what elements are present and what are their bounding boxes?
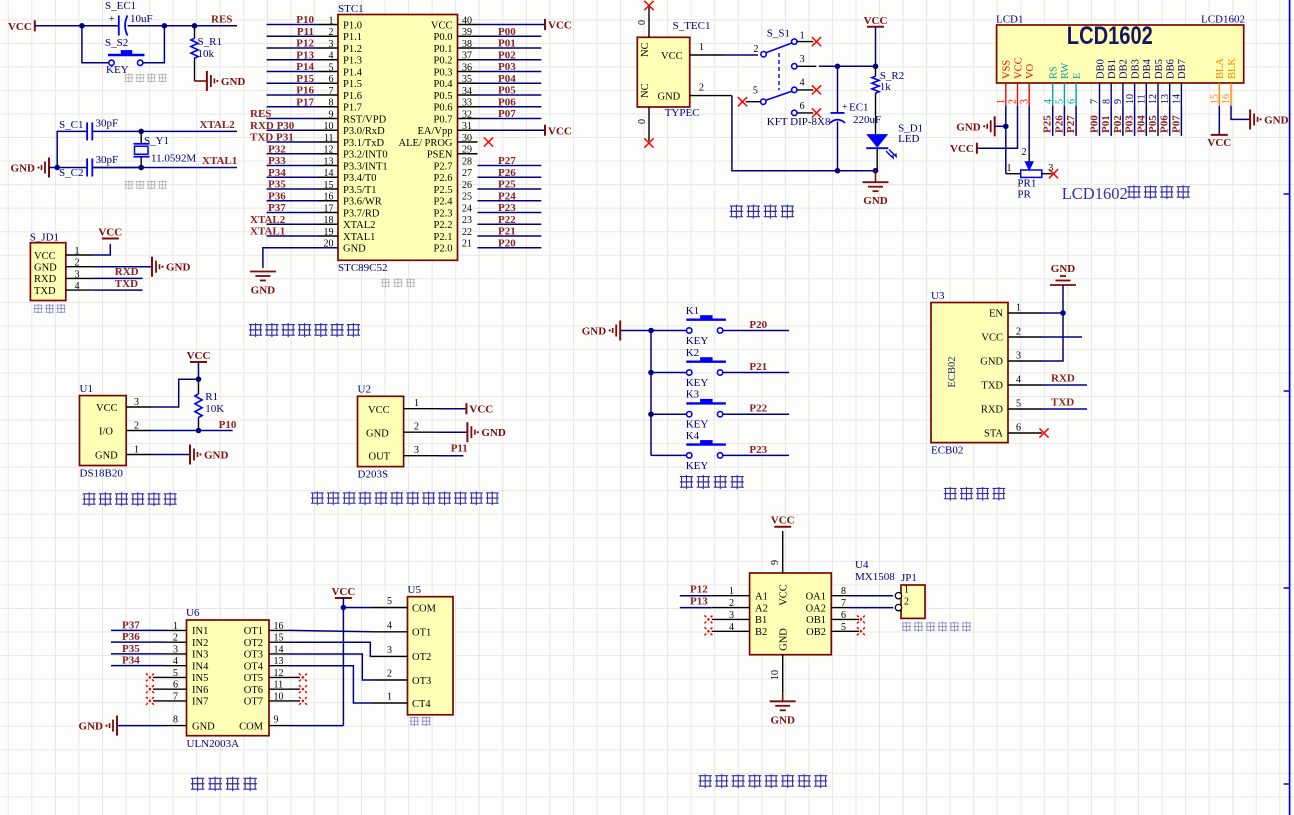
svg-text:VCC: VCC <box>469 404 493 416</box>
no-ERC marker STA <box>1039 428 1048 437</box>
title power circuit <box>730 205 743 219</box>
ground (U4) <box>770 693 796 726</box>
pins U6 <box>167 621 290 733</box>
svg-text:DB2: DB2 <box>1119 59 1130 79</box>
ground <box>770 700 796 702</box>
wire mcu pin 34 <box>478 94 542 96</box>
svg-text:10K: 10K <box>205 403 224 415</box>
svg-text:6: 6 <box>1016 423 1021 434</box>
sensor U1 DS18B20 <box>80 383 127 480</box>
svg-text:GND: GND <box>1264 114 1289 126</box>
svg-text:R1: R1 <box>205 391 218 403</box>
svg-text:ULN2003A: ULN2003A <box>187 738 240 750</box>
no-ERC marker S_S1 pin5 <box>738 97 747 106</box>
svg-text:15: 15 <box>1210 94 1221 104</box>
svg-text:DB7: DB7 <box>1177 59 1188 79</box>
no-ERC marker B2 <box>705 627 713 635</box>
node junction crystal bottom <box>138 165 144 171</box>
svg-text:IN1: IN1 <box>192 626 208 637</box>
no-ERC marker B1 <box>705 615 713 623</box>
svg-text:VCC: VCC <box>548 125 572 137</box>
wire keys bus <box>650 331 652 456</box>
wire OT3 to U5 <box>289 654 372 680</box>
stub OT6 <box>289 688 300 690</box>
node junction lcd vss <box>1003 124 1009 130</box>
switch K3 KEY <box>686 389 726 431</box>
svg-text:P13: P13 <box>296 49 314 61</box>
svg-text:P37: P37 <box>122 619 140 631</box>
svg-text:TXD: TXD <box>1051 397 1074 409</box>
svg-text:P0.7: P0.7 <box>434 114 453 125</box>
wire U3 RXD <box>1042 408 1087 410</box>
wire mcu pin 32 <box>478 118 542 120</box>
svg-text:P3.4/T0: P3.4/T0 <box>343 173 377 184</box>
wire mcu pin 39 <box>478 35 542 37</box>
svg-text:P36: P36 <box>268 190 286 202</box>
svg-text:P10: P10 <box>296 14 314 26</box>
power port VCC <box>102 238 119 240</box>
svg-text:COM: COM <box>412 603 437 614</box>
svg-text:OT3: OT3 <box>244 650 263 661</box>
node junction EC1 top <box>835 64 841 70</box>
svg-text:P34: P34 <box>122 655 140 667</box>
wire lcd pin 13 <box>1169 106 1171 136</box>
wire XTAL2 net <box>92 130 237 132</box>
no-ERC marker bottom <box>644 138 653 147</box>
svg-text:P1.2: P1.2 <box>343 44 362 55</box>
no-ERC marker IN7 <box>146 697 154 705</box>
wire mcu pin 6 <box>267 82 318 84</box>
svg-text:DS18B20: DS18B20 <box>80 468 124 480</box>
svg-text:P03: P03 <box>498 61 516 73</box>
power port VCC (reset rail) <box>8 20 35 33</box>
svg-text:STC1: STC1 <box>338 3 364 15</box>
title mcu minimal system <box>249 323 262 337</box>
wire lcd VSS to gnd <box>1005 106 1007 174</box>
svg-text:2: 2 <box>699 83 704 94</box>
wire K3 left <box>651 413 687 415</box>
svg-text:I/O: I/O <box>99 426 113 437</box>
svg-text:6: 6 <box>800 101 805 112</box>
wire U6 IN4 <box>111 665 167 667</box>
capacitor S_EC1 10uF <box>105 0 153 36</box>
svg-text:4: 4 <box>75 281 80 292</box>
svg-text:4: 4 <box>1016 375 1021 386</box>
svg-text:25: 25 <box>462 192 472 203</box>
power port VCC <box>335 597 352 599</box>
wire mcu pin 37 <box>478 59 542 61</box>
wire U6 IN2 <box>111 641 167 643</box>
wire K4 left <box>651 454 687 456</box>
svg-text:K1: K1 <box>686 305 699 317</box>
svg-text:RST/VPD: RST/VPD <box>343 114 387 125</box>
wire mcu pin 20 to ground <box>263 248 338 268</box>
svg-text:XTAL2: XTAL2 <box>343 220 375 231</box>
svg-text:NC: NC <box>640 42 651 57</box>
svg-text:VCC: VCC <box>950 143 974 155</box>
svg-text:P0.4: P0.4 <box>434 79 454 90</box>
wire JD1 VCC <box>93 244 110 255</box>
svg-text:GND: GND <box>481 427 506 439</box>
pins U2 <box>404 398 438 456</box>
svg-text:P11: P11 <box>297 26 314 38</box>
power port VCC <box>867 26 884 28</box>
svg-text:KFT DIP-8X8: KFT DIP-8X8 <box>767 116 831 128</box>
svg-text:P02: P02 <box>498 49 516 61</box>
svg-text:STA: STA <box>984 429 1003 440</box>
svg-text:P36: P36 <box>122 631 140 643</box>
wire U1 GND <box>151 454 190 456</box>
wire mcu pin 24 <box>478 212 542 214</box>
svg-text:0: 0 <box>637 119 648 124</box>
power port VCC <box>774 526 791 528</box>
svg-text:P02: P02 <box>1112 115 1124 133</box>
wire gnd to caps <box>49 131 141 167</box>
node junction crystal top <box>138 129 144 135</box>
connector U5 socket <box>408 584 454 715</box>
svg-text:IN6: IN6 <box>192 685 208 696</box>
ground <box>994 116 996 136</box>
wire lcd pin 12 <box>1157 106 1159 136</box>
svg-text:5: 5 <box>387 596 392 607</box>
ground <box>189 445 191 465</box>
svg-text:K2: K2 <box>686 347 699 359</box>
svg-text:XTAL1: XTAL1 <box>202 155 237 167</box>
no-ERC marker OT7 <box>299 697 307 705</box>
svg-text:EC1: EC1 <box>849 102 869 114</box>
svg-text:2: 2 <box>387 669 392 680</box>
svg-text:9: 9 <box>770 560 781 565</box>
svg-text:OT2: OT2 <box>244 638 263 649</box>
wire TEC1 VCC to switch <box>724 54 758 56</box>
svg-text:OT4: OT4 <box>244 661 264 672</box>
svg-text:P2.1: P2.1 <box>434 232 453 243</box>
svg-text:P05: P05 <box>498 85 516 97</box>
svg-text:3: 3 <box>134 397 139 408</box>
svg-text:3: 3 <box>75 269 80 280</box>
wire U2 OUT <box>438 455 463 457</box>
svg-text:P2.5: P2.5 <box>434 185 453 196</box>
power port VCC <box>544 19 546 30</box>
svg-text:P01: P01 <box>1100 115 1112 133</box>
svg-text:IN3: IN3 <box>192 650 208 661</box>
node junction crystal gnd <box>54 165 60 171</box>
wire mcu pin 1 <box>267 24 318 26</box>
node junction R2 top <box>873 64 879 70</box>
svg-text:VO: VO <box>1025 63 1036 79</box>
connector S_JD1 <box>30 232 93 301</box>
node junction stepper VCC <box>341 605 347 611</box>
svg-text:P35: P35 <box>122 643 140 655</box>
svg-text:RXD: RXD <box>34 274 57 285</box>
svg-text:P1.5: P1.5 <box>343 79 362 90</box>
node junction LED bottom <box>873 168 879 174</box>
wire lcd pin 6 <box>1075 106 1077 136</box>
stub IN6 <box>153 688 167 690</box>
wire lcd pin 11 <box>1145 106 1147 136</box>
wire U1 I/O P10 <box>151 430 233 432</box>
svg-text:TXD: TXD <box>981 381 1003 392</box>
svg-text:IN4: IN4 <box>192 661 209 672</box>
svg-text:P35: P35 <box>268 179 286 191</box>
svg-text:VCC: VCC <box>771 515 795 527</box>
svg-text:11: 11 <box>1137 94 1148 104</box>
svg-text:23: 23 <box>462 215 472 226</box>
svg-text:1: 1 <box>414 398 419 409</box>
svg-text:LCD1602: LCD1602 <box>1201 13 1245 25</box>
svg-text:EN: EN <box>989 309 1003 320</box>
svg-text:P2.0: P2.0 <box>434 244 453 255</box>
svg-text:1: 1 <box>699 42 704 53</box>
svg-text:KEY: KEY <box>686 419 709 431</box>
svg-text:KEY: KEY <box>686 460 709 472</box>
svg-text:P25: P25 <box>498 179 516 191</box>
svg-text:GND: GND <box>343 244 366 255</box>
wire vss to pr1 pin1 <box>1006 173 1009 175</box>
sensor U2 D203S <box>358 384 404 481</box>
power port VCC <box>544 125 546 136</box>
pin U4 VCC top <box>770 531 783 573</box>
ground (lcd left) <box>956 116 1006 136</box>
svg-text:P00: P00 <box>498 26 516 38</box>
svg-text:30pF: 30pF <box>96 118 119 130</box>
comment text reset annotation <box>125 74 134 83</box>
svg-text:GND: GND <box>980 357 1003 368</box>
svg-text:GND: GND <box>863 195 888 207</box>
svg-text:0: 0 <box>637 20 648 25</box>
svg-text:P23: P23 <box>749 444 767 456</box>
wire mcu pin 9 <box>267 118 318 120</box>
svg-text:IN5: IN5 <box>192 673 208 684</box>
svg-text:9: 9 <box>274 715 279 726</box>
svg-text:LCD1602: LCD1602 <box>1062 184 1128 203</box>
svg-text:VCC: VCC <box>1013 57 1024 79</box>
svg-text:U5: U5 <box>408 584 422 596</box>
svg-text:P0.3: P0.3 <box>434 67 453 78</box>
wire mcu VCC pin <box>478 129 546 131</box>
svg-text:P2.2: P2.2 <box>434 220 453 231</box>
svg-text:VCC: VCC <box>187 350 211 362</box>
potentiometer PR1 PR <box>1007 147 1054 200</box>
wire K2 right <box>723 372 789 374</box>
svg-text:ECB02: ECB02 <box>931 445 963 457</box>
wire mcu pin 27 <box>478 176 542 178</box>
svg-text:U6: U6 <box>186 607 200 619</box>
no-ERC marker S_S1 pin1 <box>812 37 821 46</box>
svg-text:GND: GND <box>251 285 276 297</box>
wire mcu pin 22 <box>478 235 542 237</box>
no-ERC marker ALE <box>484 137 493 146</box>
svg-text:1: 1 <box>800 31 805 42</box>
connector JP1 <box>895 572 925 618</box>
svg-text:LED: LED <box>898 133 919 145</box>
svg-text:P26: P26 <box>498 167 516 179</box>
svg-text:P22: P22 <box>749 403 767 415</box>
svg-text:ECB02: ECB02 <box>947 357 958 388</box>
switch K1 KEY <box>686 305 726 347</box>
wire K4 right <box>723 454 789 456</box>
wire lcd pin 7 <box>1099 106 1101 136</box>
no-ERC marker top <box>644 1 653 10</box>
svg-text:A2: A2 <box>755 603 768 614</box>
svg-text:P27: P27 <box>498 155 516 167</box>
wire mcu pin 19 <box>267 235 318 237</box>
svg-text:PSEN: PSEN <box>427 150 453 161</box>
svg-text:4: 4 <box>800 78 805 89</box>
svg-text:GND: GND <box>582 326 607 338</box>
switch K4 KEY <box>686 430 726 472</box>
wire keys gnd <box>620 330 651 332</box>
pin S_TEC1 top <box>637 7 649 37</box>
svg-text:VSS: VSS <box>1002 60 1013 79</box>
svg-text:+: + <box>109 14 115 25</box>
crystal S_Y1 11.0592M <box>134 131 197 167</box>
wire RXD <box>93 277 142 279</box>
svg-text:U2: U2 <box>358 384 371 396</box>
svg-text:1: 1 <box>1016 303 1021 314</box>
svg-text:3: 3 <box>414 445 419 456</box>
wire mcu pin 15 <box>267 188 318 190</box>
svg-text:2: 2 <box>75 258 80 269</box>
wire S_S2 branch <box>82 26 164 63</box>
wire OT2 to U5 <box>289 642 372 656</box>
svg-text:TXD: TXD <box>34 286 56 297</box>
svg-text:8: 8 <box>1101 99 1112 104</box>
svg-text:P1.1: P1.1 <box>343 32 362 43</box>
svg-text:IN7: IN7 <box>192 697 208 708</box>
svg-text:24: 24 <box>462 203 472 214</box>
switch S_S2 KEY <box>105 37 145 76</box>
ground <box>1249 109 1251 129</box>
svg-text:OUT: OUT <box>369 452 391 463</box>
wire lcd VCC <box>977 106 1018 148</box>
wire K1 left <box>651 330 687 332</box>
svg-text:P0.2: P0.2 <box>434 56 453 67</box>
svg-text:KEY: KEY <box>686 377 709 389</box>
svg-text:4: 4 <box>387 620 392 631</box>
svg-text:P21: P21 <box>749 361 767 373</box>
svg-text:XTAL2: XTAL2 <box>200 119 236 131</box>
wire mcu pin 5 <box>267 71 318 73</box>
svg-text:OT1: OT1 <box>412 628 431 639</box>
wire U6 IN3 <box>111 653 167 655</box>
svg-text:21: 21 <box>462 239 472 250</box>
svg-text:BLK: BLK <box>1227 58 1238 79</box>
power port VCC <box>976 143 978 154</box>
svg-text:CT4: CT4 <box>412 699 431 710</box>
svg-text:RES: RES <box>250 108 271 120</box>
svg-text:P2.4: P2.4 <box>434 197 454 208</box>
svg-text:P37: P37 <box>268 202 286 214</box>
svg-text:VCC: VCC <box>96 403 118 414</box>
wire mcu pin 3 <box>267 47 318 49</box>
pin S_TEC1 bottom <box>637 107 649 141</box>
svg-text:VCC: VCC <box>98 227 122 239</box>
svg-text:OB1: OB1 <box>806 615 826 626</box>
svg-text:DB0: DB0 <box>1095 59 1106 79</box>
svg-text:P0.5: P0.5 <box>434 91 453 102</box>
svg-text:2: 2 <box>1016 327 1021 338</box>
svg-text:XTAL1: XTAL1 <box>343 232 375 243</box>
title stepper motor <box>191 777 205 791</box>
pins U3 <box>980 303 1042 440</box>
sheet border right edge <box>1284 0 1290 815</box>
resistor R1 10K <box>195 379 224 430</box>
svg-text:2: 2 <box>134 421 139 432</box>
capacitor S_C1 30pF <box>59 118 118 141</box>
svg-text:14: 14 <box>1172 94 1183 104</box>
svg-text:P25: P25 <box>1042 115 1054 133</box>
svg-text:8: 8 <box>173 715 178 726</box>
wire K3 right <box>723 413 789 415</box>
svg-text:OT1: OT1 <box>244 626 263 637</box>
svg-text:S_C2: S_C2 <box>59 167 83 179</box>
svg-text:K4: K4 <box>686 430 700 442</box>
svg-text:P06: P06 <box>498 96 516 108</box>
wire U2 VCC <box>438 408 466 410</box>
pin U4 GND bottom <box>770 655 783 694</box>
svg-text:OB2: OB2 <box>806 627 826 638</box>
svg-text:COM: COM <box>239 721 264 732</box>
no-ERC marker S_S1 pin6 <box>812 108 821 117</box>
wire JD1 GND <box>93 266 152 268</box>
svg-text:P21: P21 <box>498 226 516 238</box>
wire mcu pin 38 <box>478 47 542 49</box>
wire to ground <box>195 80 207 82</box>
wire mcu pin 17 <box>267 212 318 214</box>
mcu U STC1 STC89C52 <box>338 3 458 274</box>
svg-text:P12: P12 <box>296 38 314 50</box>
no-ERC marker OB2 <box>857 627 865 635</box>
ground <box>116 716 118 736</box>
svg-text:27: 27 <box>462 168 472 179</box>
svg-text:GND: GND <box>166 262 191 274</box>
wire power bottom rail <box>732 96 876 171</box>
svg-text:220uF: 220uF <box>853 114 881 126</box>
wire lcd BLK to gnd <box>1231 106 1250 120</box>
wire mcu pin 26 <box>478 188 542 190</box>
svg-text:XTAL2: XTAL2 <box>250 214 286 226</box>
title bluetooth module <box>944 487 957 501</box>
svg-text:VCC: VCC <box>431 20 453 31</box>
svg-text:GND: GND <box>658 92 681 103</box>
svg-text:1: 1 <box>134 445 139 456</box>
stub OT5 <box>289 676 300 678</box>
svg-text:DB1: DB1 <box>1107 59 1118 79</box>
wire mcu pin 16 <box>267 200 318 202</box>
wire OT1 to U5 <box>289 630 372 631</box>
wire U3 TXD <box>1042 384 1087 386</box>
svg-text:KEY: KEY <box>686 335 709 347</box>
svg-text:4: 4 <box>1043 99 1054 104</box>
svg-text:RXD P30: RXD P30 <box>250 120 295 132</box>
svg-text:2: 2 <box>414 422 419 433</box>
wire mcu pin 4 <box>267 59 318 61</box>
svg-text:28: 28 <box>462 156 472 167</box>
mcu pin names and pin numbers <box>318 15 478 254</box>
comment mcu annotation <box>381 278 390 287</box>
svg-text:MX1508: MX1508 <box>855 571 895 583</box>
svg-text:P27: P27 <box>1065 115 1077 133</box>
stub OT7 <box>289 700 300 702</box>
node junction keys bus <box>648 411 654 417</box>
svg-text:3: 3 <box>1019 99 1030 104</box>
comment crystal annotation <box>125 180 134 189</box>
wire OA2 to JP1 <box>849 607 893 609</box>
node junction at S_EC1 right <box>162 23 168 29</box>
svg-text:BLA: BLA <box>1215 58 1226 79</box>
svg-text:VCC: VCC <box>548 20 572 32</box>
